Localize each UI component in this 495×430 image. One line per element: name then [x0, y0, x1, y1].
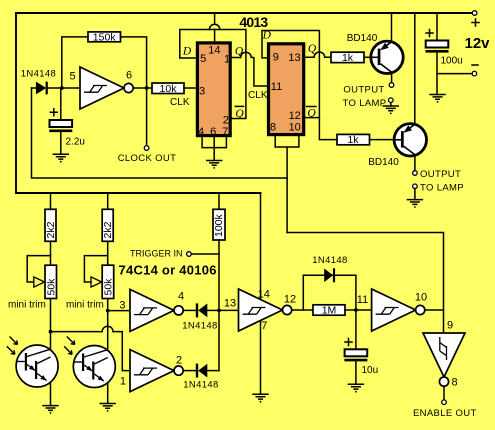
wire chip2 pin12 stub [305, 117, 319, 119]
terminal lamp2 return [413, 184, 418, 189]
svg-text:OUTPUT: OUTPUT [420, 169, 461, 180]
svg-text:12: 12 [289, 110, 301, 122]
svg-text:3: 3 [119, 300, 125, 312]
svg-text:BD140: BD140 [368, 157, 399, 168]
wire 100k down trigger column [218, 240, 220, 371]
ground lamp2 [407, 200, 423, 208]
node collector left [49, 330, 53, 334]
op-amp U1c schmitt inverter pins 3-4 [130, 289, 183, 331]
wire 100u bottom [436, 53, 438, 95]
svg-text:2: 2 [223, 115, 229, 127]
svg-text:14: 14 [258, 289, 270, 301]
resistor R 1k upper [331, 52, 364, 62]
ground lamp1 [383, 106, 399, 114]
transistor PT2 photo darlington [73, 346, 115, 388]
capacitor C 10u [344, 349, 367, 360]
wire 150k feedback right [121, 37, 147, 88]
svg-text:BD140: BD140 [347, 33, 378, 44]
wire +12V top rail [16, 12, 473, 14]
svg-text:TRIGGER IN: TRIGGER IN [130, 249, 183, 259]
wire 10k to pin3 [184, 87, 196, 89]
wire wiper loop right [84, 256, 107, 282]
wire gate3 input [108, 310, 130, 312]
wire lamp1 return to ground [390, 103, 392, 106]
svg-text:CLK: CLK [170, 97, 190, 108]
ground chip1 [206, 161, 222, 169]
diode D5 1N4148 [324, 269, 333, 283]
wire chip1 pin14 with hop [209, 13, 219, 41]
wire emitter Q1 [391, 13, 393, 42]
svg-text:150k: 150k [93, 32, 117, 44]
terminal lamp1 return [389, 98, 394, 103]
svg-text:1N4148: 1N4148 [21, 69, 56, 80]
svg-text:1: 1 [224, 54, 230, 66]
wire D1 to Q1bar loop [180, 30, 246, 119]
wire 100k top [218, 193, 220, 209]
resistor R 1k lower [337, 134, 370, 144]
svg-text:2k2: 2k2 [102, 221, 114, 238]
svg-text:Q: Q [235, 46, 244, 58]
wire gate12 output [293, 309, 313, 311]
wire diode bypass loop [303, 275, 356, 310]
svg-text:D: D [262, 30, 272, 42]
terminal output lamp2 [413, 171, 418, 176]
node osc input [60, 86, 64, 90]
wire D2 to Q2bar loop and to 1k [262, 31, 337, 140]
svg-text:8: 8 [452, 377, 458, 389]
svg-text:1N4148: 1N4148 [312, 255, 347, 266]
wire Q2 to 1k with hop [305, 52, 331, 57]
wire trigger in [191, 253, 219, 255]
transistor Q1 BD140 [371, 41, 403, 73]
diode D3 1N4148 [183, 309, 195, 311]
light arrows PT1 [10, 337, 18, 345]
wire 1k to base Q2 [370, 139, 395, 141]
svg-text:10: 10 [289, 121, 301, 133]
svg-text:3: 3 [199, 86, 205, 98]
label Qbar chip1 [235, 105, 243, 107]
svg-text:Q: Q [235, 108, 244, 120]
svg-text:9: 9 [447, 319, 453, 331]
wire gate10 output [425, 309, 444, 311]
svg-text:14: 14 [208, 45, 220, 57]
svg-text:4: 4 [178, 291, 184, 303]
terminal output lamp1 [389, 83, 394, 88]
svg-text:2k2: 2k2 [45, 221, 57, 238]
diode D1 1N4148 [32, 87, 36, 89]
terminal ENABLE OUT [442, 400, 447, 405]
wire collector column left [50, 299, 52, 406]
terminal CLOCK OUT [144, 146, 149, 151]
wire lamp2 return to ground [414, 189, 416, 200]
resistor R 10k [152, 83, 184, 94]
svg-text:2.2u: 2.2u [66, 137, 85, 148]
wire collector Q2 [414, 155, 416, 171]
svg-text:12: 12 [284, 294, 296, 306]
svg-text:TO LAMP: TO LAMP [343, 98, 387, 109]
terminal TRIGGER IN [187, 252, 192, 257]
label + supply [472, 19, 479, 26]
label + of 2.2u [50, 109, 57, 116]
flip-flop U2a 4013 first half [197, 43, 230, 136]
svg-text:OUTPUT: OUTPUT [343, 85, 384, 96]
op-amp U1e schmitt inverter pins 11-10 [372, 289, 425, 331]
capacitor C 2.2u [49, 120, 72, 131]
svg-text:1M: 1M [322, 305, 337, 317]
wire 0V link [437, 73, 472, 75]
svg-text:13: 13 [224, 298, 236, 310]
wire 2k2 right to trimmer [107, 241, 109, 265]
wire enable line left [32, 88, 288, 178]
svg-text:1N4148: 1N4148 [182, 321, 217, 332]
svg-text:100k: 100k [213, 213, 225, 237]
node collector right [106, 309, 110, 313]
svg-text:6: 6 [126, 70, 132, 82]
wire gate1 input with hop [51, 326, 131, 370]
svg-text:4: 4 [198, 126, 204, 138]
ground PT1 [42, 406, 58, 414]
light arrows PT2 [67, 337, 75, 345]
svg-text:12v: 12v [465, 35, 491, 52]
svg-text:50k: 50k [103, 278, 115, 296]
wire +12V bottom distribution [16, 192, 261, 194]
wire collector column right [107, 299, 109, 403]
transistor Q2 BD140 [394, 124, 426, 156]
wire gate pin7 to ground [260, 321, 262, 394]
capacitor C 100u [426, 41, 449, 52]
ground PT2 [100, 404, 116, 412]
op-amp U1d schmitt inverter pins 13-12 [239, 289, 292, 331]
svg-text:TO LAMP: TO LAMP [420, 183, 464, 194]
ground 2.2u [53, 154, 69, 162]
svg-text:74C14 or 40106: 74C14 or 40106 [119, 263, 217, 278]
svg-text:4013: 4013 [239, 14, 268, 30]
svg-text:100u: 100u [441, 56, 463, 67]
svg-text:ENABLE OUT: ENABLE OUT [413, 408, 477, 419]
wire +12V drop to 74C14 pin 14 [260, 193, 262, 299]
svg-text:9: 9 [273, 52, 279, 64]
wire 1k to base Q1 [364, 56, 371, 58]
op-amp U1f schmitt inverter pins 9-8 [423, 333, 465, 386]
svg-text:1k: 1k [347, 134, 359, 146]
node trigger gate4 [217, 309, 221, 313]
flip-flop U2b 4013 second half [269, 44, 304, 135]
wire collector Q1 [391, 72, 393, 83]
label - supply [472, 64, 478, 66]
svg-text:mini trim: mini trim [8, 300, 46, 311]
wire 10u branch [355, 310, 357, 348]
resistor R 150k [88, 32, 121, 42]
svg-text:13: 13 [288, 52, 300, 64]
svg-text:2: 2 [176, 355, 182, 367]
node pin 11 [354, 308, 358, 312]
wire 100u top [436, 13, 438, 40]
svg-text:11: 11 [271, 81, 282, 93]
svg-text:10u: 10u [362, 365, 379, 376]
wire 2k2 left top [50, 193, 52, 209]
svg-text:10k: 10k [160, 83, 178, 95]
wire 150k feedback left [62, 37, 88, 88]
wire clock out branch [146, 88, 148, 146]
wire 2k2 right top [107, 193, 109, 209]
diode D4 1N4148 [183, 370, 195, 372]
resistor R 2k2 left [45, 209, 56, 241]
wire 10u to ground [355, 362, 357, 385]
ground 100u [429, 95, 445, 103]
wire 2.2u to ground [60, 132, 62, 154]
svg-text:CLOCK OUT: CLOCK OUT [118, 153, 177, 164]
svg-text:6: 6 [210, 126, 216, 138]
svg-text:10: 10 [415, 291, 427, 303]
wire +12V left frame [15, 13, 17, 193]
wire 2.2u branch [60, 88, 62, 119]
wire trigger to gate13 [219, 309, 239, 311]
op-amp U1b schmitt inverter pins 1-2 [130, 350, 183, 392]
wire chip1 pins 4 6 7 bracket [202, 137, 226, 160]
wire osc output [133, 87, 152, 89]
svg-text:1: 1 [120, 376, 126, 388]
resistor R 100k [213, 209, 225, 240]
svg-text:50k: 50k [45, 278, 57, 296]
svg-text:mini trim: mini trim [66, 300, 104, 311]
svg-text:1k: 1k [342, 52, 354, 64]
svg-text:CLK: CLK [248, 90, 268, 101]
resistor VR 50k left mini trim [45, 265, 57, 298]
wire 1M to gate11 [345, 309, 372, 311]
label + of 100u [426, 30, 433, 37]
ground 74C14 pin7 [252, 394, 268, 402]
wire enable out [443, 386, 445, 399]
svg-text:7: 7 [222, 126, 228, 138]
node osc output [145, 86, 149, 90]
wire wiper loop left [27, 256, 50, 282]
wiper arrow 50k left [34, 277, 45, 287]
wire emitter Q2 [414, 13, 416, 124]
resistor VR 50k right mini trim [102, 265, 114, 298]
svg-text:1N4148: 1N4148 [183, 380, 218, 391]
resistor R 1M [313, 305, 345, 315]
label + of 10u [345, 339, 352, 346]
ground 10u [348, 384, 364, 392]
svg-text:11: 11 [357, 294, 368, 306]
label Qbar chip2 [307, 106, 316, 108]
wire enable line right [287, 233, 443, 332]
terminal +12V [472, 11, 477, 16]
transistor PT1 photo darlington [16, 345, 58, 387]
resistor R 2k2 right [102, 209, 113, 241]
svg-text:5: 5 [200, 53, 206, 65]
wiper arrow 50k right [91, 277, 102, 287]
svg-text:5: 5 [69, 71, 75, 83]
svg-text:7: 7 [261, 320, 267, 332]
svg-text:Q: Q [307, 108, 316, 120]
terminal 0V [472, 71, 477, 76]
wire chip2 pins 8 10 bracket to enable line [275, 136, 299, 232]
wire Q1 to CLK2 with hop [232, 52, 269, 86]
svg-text:D: D [182, 46, 192, 58]
svg-text:8: 8 [270, 121, 276, 133]
op-amp U1a schmitt inverter pins 5-6 [80, 67, 133, 109]
wire 2k2 left to trimmer [50, 241, 52, 265]
